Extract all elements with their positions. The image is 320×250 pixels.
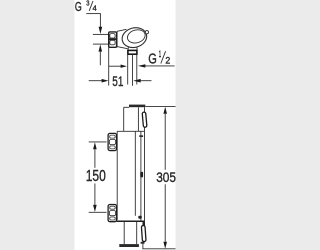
up arrowhead below inlet <box>99 44 103 51</box>
outlet shaft thick stub <box>143 222 145 226</box>
bottom outlet line <box>142 222 144 249</box>
upper union nut facet 1 <box>110 135 116 138</box>
bottom pill foot <box>141 242 145 244</box>
upper union nut outer <box>108 133 117 150</box>
label G 1/2 leader arrowhead <box>138 64 146 67</box>
lower narrow right edge <box>136 222 138 244</box>
svg-text:G: G <box>75 0 82 14</box>
lower union nut facet 3 <box>110 217 116 220</box>
upper union nut facet 3 <box>110 146 116 149</box>
mixer top cap <box>129 105 145 108</box>
housing inner line A <box>134 132 136 216</box>
housing inner line B <box>140 131 142 221</box>
lower union nut facet 2 <box>109 211 115 216</box>
upper union nut facet 2 <box>109 140 115 145</box>
dim 305 up arrowhead <box>163 107 167 114</box>
dim 305 top extension line <box>145 105 175 107</box>
svg-text:305: 305 <box>156 169 176 185</box>
valve body bottom edge <box>117 47 127 49</box>
svg-text:2: 2 <box>165 55 170 66</box>
dim 150 line lower segment <box>94 184 96 206</box>
dark tick on line B <box>138 216 142 219</box>
dim 150 down arrowhead <box>93 205 97 212</box>
inner arrow to pipe left edge <box>109 65 121 67</box>
svg-text:1: 1 <box>159 48 161 59</box>
valve body top edge <box>117 29 126 31</box>
valve handle outer ellipse <box>120 25 149 50</box>
mixer bottom cap <box>119 244 139 247</box>
valve hex nut <box>109 32 117 47</box>
lower union nut facet 1 <box>110 206 116 209</box>
svg-text:150: 150 <box>86 168 106 185</box>
dim 305 line lower segment <box>164 184 166 242</box>
dim 150 up arrowhead <box>93 142 97 149</box>
valve outlet left edge <box>127 47 129 50</box>
mixer upper inner line <box>137 107 139 131</box>
outlet pipe right line <box>136 54 138 84</box>
top handle pill <box>142 112 147 127</box>
dim 305 line upper segment <box>164 114 166 170</box>
dark marker on body <box>140 172 143 178</box>
lower union nut outer <box>108 205 117 222</box>
dim 150 lower extension line <box>89 211 107 213</box>
leader underline of G 3/4 <box>86 13 101 15</box>
dim 305 bottom extension line <box>142 248 175 250</box>
leader vertical of G 3/4 <box>99 14 101 27</box>
gray page background <box>0 0 250 250</box>
svg-text:3: 3 <box>86 0 89 8</box>
arrow shaft tail <box>99 52 101 66</box>
housing bottom edge <box>117 220 145 222</box>
outlet pipe center line <box>132 54 134 85</box>
dim 51 right outside arrow <box>133 79 141 83</box>
dim 51 left outside arrow <box>89 80 102 82</box>
lower-left body edge <box>123 222 125 244</box>
dim 51 left extension line <box>108 47 110 86</box>
dim 150 upper extension line <box>89 141 107 143</box>
fraction slash of G 1/2 <box>161 51 166 63</box>
housing left edge <box>116 131 118 220</box>
valve outlet right edge <box>136 47 138 50</box>
label G 3/4 <box>75 0 97 14</box>
inlet pipe bottom line <box>93 43 109 45</box>
down arrowhead of G 3/4 leader <box>99 27 103 34</box>
outlet pipe left line <box>127 54 129 84</box>
mixer top edge <box>124 106 130 108</box>
svg-text:51: 51 <box>112 73 123 89</box>
label G 1/2 leader line <box>145 65 175 67</box>
mixer right edge <box>144 107 146 222</box>
bottom handle pill <box>141 225 146 241</box>
housing step top edge <box>117 130 144 132</box>
mixer upper-left edge <box>123 107 125 131</box>
dim 305 down arrowhead <box>163 242 167 249</box>
svg-text:4: 4 <box>93 3 97 12</box>
svg-text:G: G <box>148 52 157 68</box>
white drawing panel <box>75 0 176 250</box>
outlet collar nut <box>128 50 137 54</box>
inlet pipe top line <box>93 33 109 35</box>
right outlet nipple <box>139 135 143 137</box>
fraction slash of G 3/4 <box>89 1 93 11</box>
label G 1/2 text <box>148 48 170 68</box>
dim 150 line upper segment <box>94 149 96 168</box>
valve handle tip ball <box>145 31 148 34</box>
valve handle inner ellipse <box>126 28 147 45</box>
